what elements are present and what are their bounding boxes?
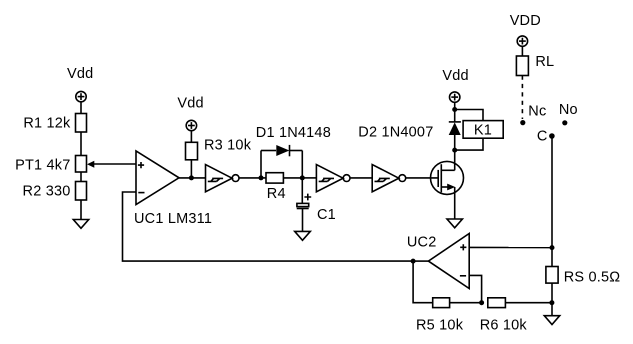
contact C: [549, 133, 555, 139]
resistor R5: [433, 298, 450, 308]
node R4 right / C1: [300, 175, 305, 180]
wire R6 to RS bottom node: [505, 302, 552, 304]
svg-text:Vdd: Vdd: [442, 68, 468, 84]
wire node to R4: [261, 177, 266, 179]
contact No: [562, 120, 567, 125]
wire D1 branch top: [261, 150, 276, 152]
node R4/D1 left: [259, 175, 264, 180]
resistor R3: [186, 142, 198, 160]
svg-text:Vdd: Vdd: [67, 66, 93, 82]
svg-text:No: No: [559, 102, 578, 118]
power symbol VDD (load): [517, 36, 527, 46]
wire node to inverter 2: [302, 177, 316, 179]
svg-text:C: C: [537, 129, 548, 145]
node RS top / UC2 + input: [550, 245, 555, 250]
svg-text:R2 330: R2 330: [23, 184, 71, 200]
power symbol Vdd (relay): [450, 92, 460, 102]
svg-text:R3 10k: R3 10k: [204, 138, 252, 154]
wire inverter3 to MOSFET gate: [406, 177, 438, 179]
wire R2 to ground: [80, 200, 82, 220]
wire node to C1: [301, 178, 303, 204]
ground (divider): [73, 220, 88, 229]
wire PT1 to R2: [80, 172, 82, 182]
svg-text:Nc: Nc: [528, 104, 546, 120]
wire R3 to node: [190, 160, 192, 178]
schmitt inverter 1: [206, 165, 240, 192]
op-amp UC1: [136, 151, 179, 205]
svg-text:R1 12k: R1 12k: [23, 116, 71, 132]
svg-text:R6 10k: R6 10k: [480, 318, 528, 334]
transistor Q1 (MOSFET): [431, 150, 464, 219]
contact Nc: [520, 120, 525, 125]
power symbol Vdd (divider): [76, 91, 86, 101]
ground (MOSFET source): [447, 219, 462, 228]
wire D1 branch right riser: [301, 151, 303, 178]
relay coil K1: [455, 110, 504, 151]
wire RS to ground: [551, 283, 553, 316]
ground (C1): [295, 231, 311, 240]
svg-text:UC2: UC2: [407, 235, 437, 251]
svg-text:RS 0.5Ω: RS 0.5Ω: [564, 270, 621, 286]
node drain / K1 bottom: [452, 148, 457, 153]
node R5/R6/- input: [479, 300, 484, 305]
wire node down to R5: [413, 261, 433, 303]
schmitt inverter 2: [316, 165, 350, 192]
svg-text:R5 10k: R5 10k: [416, 318, 464, 334]
svg-text:Vdd: Vdd: [177, 96, 203, 112]
svg-text:R4: R4: [267, 186, 286, 202]
resistor R2: [76, 182, 87, 201]
ground (RS): [544, 316, 559, 325]
wire R5 to node: [450, 302, 482, 304]
wire UC1 - input feedback: [123, 192, 414, 261]
wire UC2 - input: [469, 275, 481, 302]
wire D2 to node: [454, 110, 456, 122]
capacitor C1: [297, 194, 312, 209]
wire node to RS: [551, 248, 553, 267]
svg-text:D1 1N4148: D1 1N4148: [256, 125, 331, 141]
wire C contact to RS node: [551, 136, 553, 248]
resistor RS: [546, 267, 558, 284]
wire UC1 output: [179, 177, 206, 179]
node RS bottom: [549, 300, 554, 305]
svg-text:PT1 4k7: PT1 4k7: [15, 158, 70, 174]
resistor R6: [488, 298, 506, 308]
node UC2 output / feedback / R5: [411, 259, 416, 264]
wiper arrowhead: [87, 161, 94, 168]
dashed wire RL to Nc contact: [521, 76, 523, 120]
diode D2: [449, 122, 461, 135]
power symbol Vdd (R3): [186, 120, 196, 130]
wire PT1 wiper to UC1 + input: [91, 163, 136, 165]
svg-text:D2 1N4007: D2 1N4007: [358, 125, 433, 141]
svg-text:K1: K1: [474, 122, 492, 138]
op-amp UC2: [428, 234, 469, 289]
resistor R1: [76, 114, 87, 133]
wire R4 to node: [283, 177, 302, 179]
node UC1 output / R3: [189, 175, 194, 180]
schmitt inverter 3: [372, 165, 405, 192]
wire Vdd to R3: [190, 131, 192, 142]
svg-text:UC1 LM311: UC1 LM311: [134, 211, 212, 227]
diode D1: [276, 145, 289, 156]
wire D1 branch left riser: [260, 151, 262, 178]
wire VDD to RL: [521, 47, 523, 56]
wire UC2 output: [413, 260, 428, 262]
wire R1 to PT1: [80, 132, 82, 156]
wire UC2 + input: [469, 246, 552, 248]
resistor R4: [266, 173, 283, 183]
wire Vdd to R1: [80, 102, 82, 113]
svg-text:VDD: VDD: [510, 13, 541, 29]
wire inverter2 to inverter3: [350, 177, 372, 179]
node Vdd / K1 top: [452, 107, 457, 112]
wire C1 to ground: [302, 209, 304, 231]
wire node to D2: [454, 135, 456, 150]
wire inverter1 to R4 node: [239, 177, 261, 179]
wire D1 to right riser: [290, 150, 303, 152]
svg-text:RL: RL: [535, 54, 554, 70]
svg-text:C1: C1: [317, 207, 336, 223]
resistor RL: [516, 56, 528, 76]
wire Vdd to node: [454, 103, 456, 110]
potentiometer PT1: [76, 156, 87, 173]
